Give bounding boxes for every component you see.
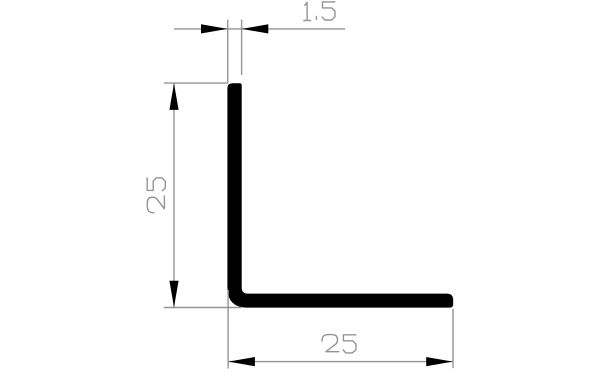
arrow: top dim, points right at left witness <box>201 24 228 33</box>
wire: left-dim bottom witness line <box>164 307 242 309</box>
wire: top dimension line (1.5) <box>174 28 345 30</box>
wire: top-dim left witness line <box>227 20 229 84</box>
wire: left-dim top witness line <box>164 82 228 84</box>
text 1.5 (top dimension value) <box>304 2 335 21</box>
arrow: bottom dim, points right <box>426 357 453 366</box>
text 25 (bottom dimension value) <box>322 335 356 353</box>
wire: top-dim right witness line <box>241 20 243 75</box>
L-profile cross-section (25x25x1.5 angle) <box>227 83 453 307</box>
wire: bottom dimension line (25 horizontal) <box>228 361 453 363</box>
arrow: top dim, points left at right witness <box>242 24 268 33</box>
wire: bottom-dim right witness line <box>452 309 454 368</box>
arrow: left dim, points up <box>169 83 178 110</box>
text 25 (left dimension value, rotated) <box>147 178 165 213</box>
arrow: left dim, points down <box>169 281 178 308</box>
wire: left dimension line (25 vertical) <box>173 84 175 308</box>
arrow: bottom dim, points left <box>228 357 255 366</box>
wire: bottom-dim left witness line <box>227 290 229 369</box>
